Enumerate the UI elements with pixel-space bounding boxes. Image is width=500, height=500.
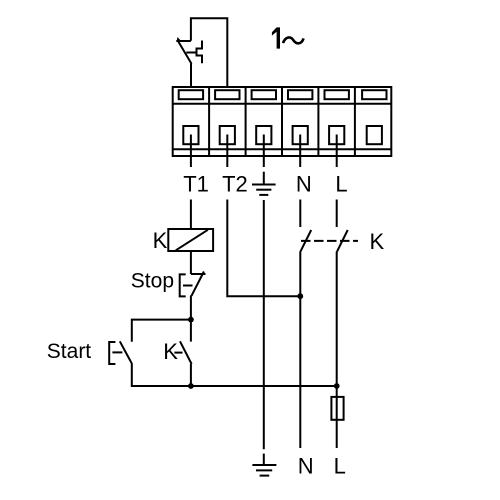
svg-text:Stop: Stop bbox=[131, 270, 174, 293]
svg-text:N: N bbox=[298, 453, 314, 478]
svg-text:N: N bbox=[296, 172, 312, 197]
svg-text:L: L bbox=[335, 172, 347, 197]
svg-text:T1: T1 bbox=[183, 172, 209, 197]
svg-text:K: K bbox=[153, 228, 168, 253]
svg-text:T2: T2 bbox=[222, 172, 248, 197]
svg-text:L: L bbox=[334, 453, 346, 478]
svg-text:K: K bbox=[163, 339, 178, 364]
svg-text:Start: Start bbox=[47, 340, 92, 363]
svg-text:K: K bbox=[370, 229, 385, 254]
